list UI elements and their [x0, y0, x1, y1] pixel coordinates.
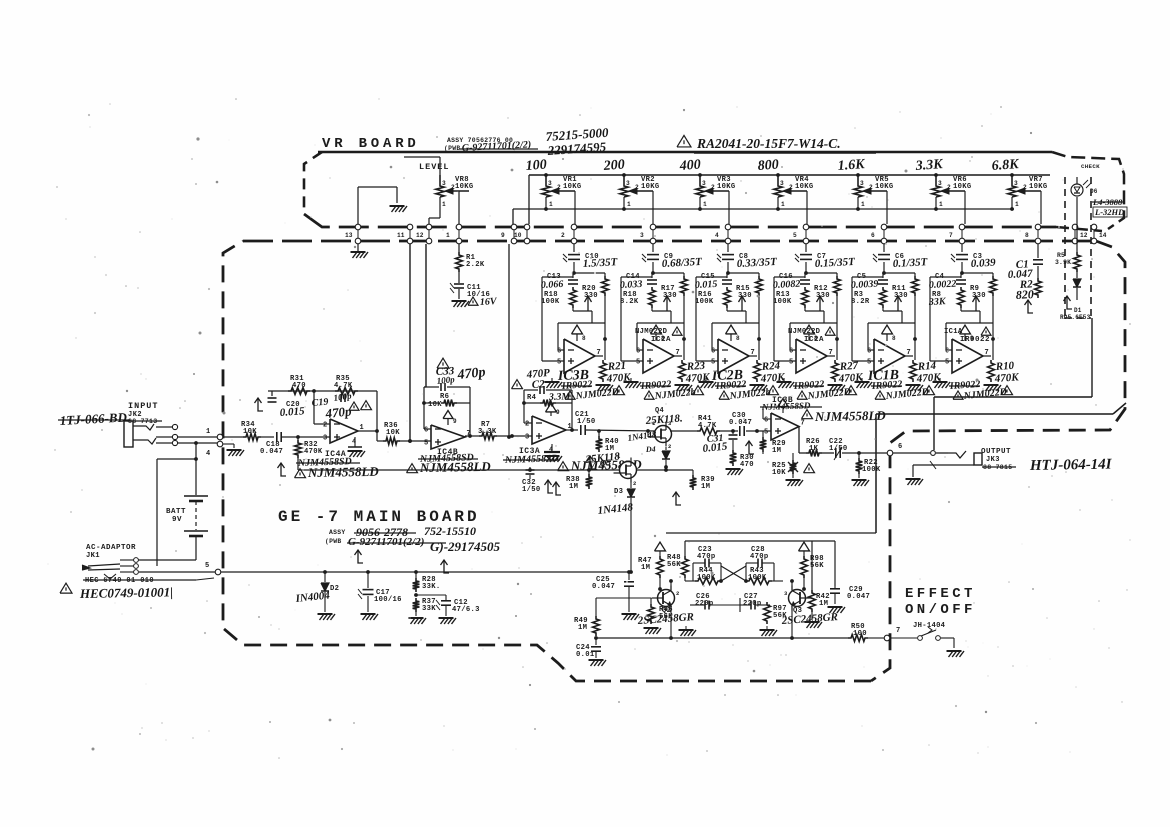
transistor Q2 — [652, 586, 680, 611]
svg-text:G)-29174505: G)-29174505 — [430, 539, 501, 554]
resistor R50 — [848, 623, 884, 641]
diode D1 — [1060, 272, 1091, 321]
input jack JK2 — [124, 421, 178, 447]
svg-text:10K: 10K — [772, 469, 786, 477]
svg-text:3: 3 — [548, 180, 552, 187]
resistor R11 — [892, 273, 918, 323]
ground below R21 — [596, 385, 614, 391]
svg-text:2: 2 — [525, 421, 529, 429]
svg-text:4.7K: 4.7K — [698, 422, 717, 430]
svg-text:3.3K: 3.3K — [478, 428, 497, 436]
wire cell 4 top tee — [806, 272, 837, 274]
ground R46 — [679, 626, 697, 636]
ground cell 4 aux — [777, 378, 795, 388]
ground R25 — [786, 474, 804, 486]
svg-text:6: 6 — [898, 443, 902, 451]
capacitor C4 — [929, 273, 966, 291]
transistor Q3 — [784, 586, 812, 611]
capacitor C32 — [522, 467, 540, 494]
capacitor C30 — [729, 412, 752, 436]
trimmer arrow cell 6 — [973, 296, 980, 311]
svg-text:JK1: JK1 — [86, 552, 100, 560]
CHECK label — [1081, 163, 1100, 170]
resistor R20 — [582, 273, 608, 323]
ground below C11 — [452, 289, 470, 307]
VR board outline — [304, 152, 1124, 231]
resistor R13 — [773, 287, 808, 311]
label IC3A — [503, 447, 642, 473]
svg-text:0.0039: 0.0039 — [851, 279, 879, 291]
svg-text:2.2K: 2.2K — [466, 261, 485, 269]
svg-text:1: 1 — [549, 201, 553, 208]
svg-text:2: 2 — [1023, 184, 1027, 191]
svg-text:5: 5 — [557, 359, 561, 367]
wire IC3A out — [566, 429, 578, 431]
ground R97 — [760, 626, 778, 636]
svg-text:5: 5 — [793, 232, 797, 239]
wire cell 3 left — [696, 277, 727, 361]
LEVEL label — [419, 162, 450, 172]
svg-text:G-92711701(2/2): G-92711701(2/2) — [348, 536, 424, 548]
node 1 — [206, 428, 223, 440]
resistor R18 — [620, 287, 655, 311]
svg-text:8: 8 — [736, 335, 740, 342]
svg-text:2: 2 — [633, 480, 636, 487]
diode D2 — [294, 572, 339, 612]
svg-text:800: 800 — [757, 158, 779, 174]
capacitor C20 — [268, 391, 306, 419]
wire Q2 collector — [658, 579, 673, 591]
svg-text:(PWB: (PWB — [325, 538, 342, 545]
label L4-3888 — [1092, 197, 1127, 217]
wire R36-IC4B — [399, 439, 431, 443]
power arrow op-amp 5 — [882, 325, 897, 342]
svg-text:7: 7 — [467, 430, 471, 438]
diode D4 — [627, 429, 670, 467]
svg-text:IC2A: IC2A — [651, 336, 671, 344]
trimmer arrow cell 1 — [585, 296, 592, 311]
op-amp IC2A — [789, 339, 833, 373]
capacitor C15 — [695, 273, 732, 291]
wire R34-C18 — [261, 436, 274, 438]
svg-text:8.2R: 8.2R — [851, 298, 870, 306]
svg-text:3.9K: 3.9K — [1055, 259, 1071, 266]
svg-text:47/6.3: 47/6.3 — [452, 606, 480, 614]
wire bus drop D — [507, 244, 511, 439]
resistor R22 — [856, 453, 881, 474]
capacitor C16 — [773, 273, 810, 291]
label pin4 IC3A — [544, 444, 562, 462]
label below op-amp 1 — [557, 368, 620, 402]
node 200 label — [602, 158, 625, 174]
capacitor C17 — [358, 572, 402, 612]
svg-text:RD5.6E53: RD5.6E53 — [1060, 314, 1091, 321]
capacitor C18 — [260, 432, 283, 456]
ground JH-1404 — [947, 651, 965, 657]
resistor R28 — [413, 572, 441, 592]
svg-text:12: 12 — [1080, 232, 1088, 239]
resistor R30 — [730, 450, 754, 469]
svg-text:6: 6 — [636, 348, 640, 356]
svg-text:6: 6 — [557, 348, 561, 356]
power arrow op-amp 4 — [804, 325, 819, 342]
capacitor C24 — [576, 638, 601, 659]
warning mark cell 2 — [693, 386, 704, 395]
power arrow IC3A — [546, 403, 561, 416]
power arrow C20 — [255, 398, 264, 411]
label IC4A — [295, 450, 380, 480]
svg-text:R4: R4 — [527, 394, 537, 402]
power arrow C32 — [545, 480, 554, 493]
potentiometer VR3 — [696, 173, 736, 224]
wire IC3A feedback box — [522, 390, 574, 432]
EFFECT ON/OFF title — [905, 586, 976, 618]
resistor R32 — [295, 437, 323, 458]
svg-text:4.7K: 4.7K — [334, 382, 353, 390]
wire Q3 collector — [790, 579, 806, 591]
label below op-amp 3 — [711, 368, 772, 402]
node 1.6K label — [837, 157, 866, 174]
warning mark cell 3 — [768, 386, 779, 395]
wire Q2 emitter — [669, 606, 673, 640]
resistor R41 — [670, 415, 720, 434]
svg-text:10KG: 10KG — [717, 183, 735, 191]
potentiometer VR5 — [854, 173, 894, 224]
svg-text:752-15510: 752-15510 — [424, 524, 476, 538]
wire cell 5 left — [852, 277, 883, 361]
svg-text:220p: 220p — [695, 600, 713, 608]
svg-text:2: 2 — [789, 184, 793, 191]
svg-text:470: 470 — [740, 461, 754, 469]
power arrow R39 — [673, 492, 682, 505]
svg-text:820: 820 — [1015, 287, 1034, 302]
svg-text:0.1/35T: 0.1/35T — [893, 256, 929, 270]
svg-text:HEC0749-01001|: HEC0749-01001| — [79, 584, 173, 601]
wire C22-out — [842, 451, 887, 455]
label AC-ADAPTOR — [86, 544, 136, 560]
power arrow op-amp 3 — [726, 325, 741, 342]
svg-text:OUTPUT: OUTPUT — [981, 448, 1011, 456]
svg-text:0.039: 0.039 — [971, 257, 997, 270]
wire frequency rail — [529, 175, 1050, 224]
node 7 — [884, 627, 900, 641]
revision note RA2041 — [677, 135, 876, 153]
svg-text:100K: 100K — [862, 466, 881, 474]
capacitor C26 — [690, 593, 740, 610]
svg-text:VR BOARD: VR BOARD — [322, 136, 420, 152]
main board ASSY text — [325, 524, 501, 554]
svg-text:6: 6 — [871, 232, 875, 239]
wire cell 2 feedback — [637, 323, 684, 350]
svg-text:ASSY: ASSY — [329, 529, 346, 536]
svg-text:9: 9 — [501, 232, 505, 239]
output jack JK3 — [913, 451, 982, 477]
node 6 output — [887, 443, 902, 456]
svg-text:L-32HD: L-32HD — [1094, 207, 1124, 217]
svg-text:ON/OFF: ON/OFF — [905, 602, 976, 618]
svg-text:1: 1 — [627, 201, 631, 208]
svg-text:100/16: 100/16 — [374, 596, 402, 604]
power arrow R40 — [587, 456, 596, 469]
svg-text:JK3: JK3 — [986, 456, 1000, 464]
resistor R23 — [679, 360, 711, 385]
op-amp IC3B — [557, 339, 601, 373]
wire Q5-R39 — [636, 468, 693, 472]
label 1TJ-066-BD — [58, 409, 130, 428]
svg-text:470p: 470p — [750, 553, 768, 561]
resistor R31 — [288, 375, 310, 394]
svg-text:3: 3 — [626, 180, 630, 187]
svg-text:100K: 100K — [773, 298, 792, 306]
resistor R44 — [685, 567, 721, 584]
wire Q4 gate — [647, 431, 649, 437]
svg-text:8: 8 — [582, 335, 586, 342]
wire cell 6 feedback — [946, 323, 993, 350]
svg-text:NJM022D: NJM022D — [788, 328, 821, 336]
svg-text:0.047: 0.047 — [592, 583, 615, 591]
svg-text:100p: 100p — [436, 374, 455, 386]
resistor R34 — [241, 421, 261, 440]
svg-text:4: 4 — [715, 232, 719, 239]
capacitor C33 — [436, 358, 487, 391]
svg-text:100: 100 — [525, 158, 547, 174]
svg-text:400: 400 — [678, 158, 701, 174]
resistor R40 — [596, 431, 619, 453]
wire check drop — [1076, 197, 1078, 252]
svg-text:0.015: 0.015 — [695, 279, 718, 291]
label above op-amp 6 — [944, 327, 991, 344]
wire R41-C30 — [720, 429, 738, 433]
power arrow IC3B — [778, 399, 788, 414]
ground below R14 — [906, 385, 924, 391]
capacitor C8 — [717, 244, 778, 275]
svg-text:8.2K: 8.2K — [620, 298, 639, 306]
wire main row — [586, 429, 656, 433]
resistor R3 — [851, 287, 886, 311]
svg-text:6: 6 — [789, 348, 793, 356]
wire cell 1 feedback — [558, 323, 605, 350]
potentiometer VR8 — [404, 157, 473, 224]
svg-text:5: 5 — [789, 359, 793, 367]
svg-text:0.047: 0.047 — [729, 419, 752, 427]
svg-text:0.01: 0.01 — [576, 651, 595, 659]
ground C12 — [439, 618, 457, 624]
svg-text:CHECK: CHECK — [1081, 163, 1100, 170]
ground output — [906, 479, 924, 485]
svg-text:D2: D2 — [330, 585, 339, 593]
svg-text:2: 2 — [323, 422, 327, 430]
resistor R38 — [566, 470, 592, 491]
svg-text:0.0082: 0.0082 — [773, 279, 801, 291]
svg-text:3: 3 — [1014, 180, 1018, 187]
wire cell 2 wiper — [652, 311, 671, 323]
resistor R98 — [801, 555, 825, 589]
svg-text:10KG: 10KG — [953, 183, 971, 191]
diode D3 — [597, 479, 635, 574]
svg-text:1M: 1M — [819, 600, 828, 608]
svg-text:1M: 1M — [569, 483, 578, 491]
wire cell 3 wiper — [727, 311, 746, 323]
wire IC3B out — [799, 426, 806, 453]
power arrow R2 — [1025, 300, 1034, 313]
wire cell 1 output — [595, 323, 607, 360]
capacitor C2 — [512, 367, 551, 394]
svg-text:2: 2 — [561, 232, 565, 239]
resistor R27 — [832, 360, 864, 385]
resistor R35 — [334, 375, 358, 394]
svg-text:3: 3 — [525, 434, 529, 442]
node 5 — [205, 562, 221, 575]
svg-text:2: 2 — [947, 184, 951, 191]
label below op-amp 6 — [948, 379, 1007, 402]
ground cell 2 aux — [624, 378, 642, 388]
ground R30 — [726, 469, 744, 475]
op-amp IC1A — [945, 339, 989, 373]
trimmer arrow cell 4 — [817, 296, 824, 311]
wire cell 2 left — [621, 277, 652, 361]
svg-text:3.3K: 3.3K — [914, 157, 944, 174]
svg-text:1: 1 — [206, 428, 210, 436]
ground C29 — [828, 607, 846, 613]
GE-7 MAIN BOARD title — [278, 508, 480, 526]
power arrow ff right — [799, 542, 810, 556]
svg-text:6: 6 — [424, 427, 428, 435]
power arrow C31 — [746, 441, 755, 454]
svg-text:0.0022: 0.0022 — [929, 279, 957, 291]
svg-text:0.68/35T: 0.68/35T — [662, 256, 704, 270]
label Q3 — [780, 607, 838, 627]
svg-text:470p: 470p — [324, 403, 353, 421]
svg-text:2: 2 — [711, 184, 715, 191]
ground C17 — [361, 614, 379, 620]
resistor R9 — [970, 273, 996, 323]
label pin4 IC4A — [348, 437, 366, 457]
svg-text:JH-1404: JH-1404 — [913, 622, 946, 630]
wire IC3B fb — [763, 407, 771, 419]
label INPUT — [127, 401, 162, 425]
svg-text:4: 4 — [206, 450, 210, 458]
svg-text:1/50: 1/50 — [829, 445, 847, 453]
svg-text:10: 10 — [514, 232, 522, 239]
wire under row — [298, 468, 620, 472]
check section dashed box — [1065, 177, 1091, 318]
label OUTPUT — [981, 448, 1113, 474]
node 3.3K label — [914, 157, 944, 174]
svg-text:AC-ADAPTOR: AC-ADAPTOR — [86, 544, 136, 552]
svg-text:470: 470 — [292, 382, 306, 390]
capacitor C13 — [541, 273, 578, 291]
svg-text:13: 13 — [345, 232, 353, 239]
wire cell 5 feedback — [868, 323, 915, 350]
node 6.8K label — [991, 157, 1020, 174]
svg-text:NJM4558LD: NJM4558LD — [307, 464, 380, 480]
warning mark cell 4 — [846, 386, 857, 395]
ground below R27 — [828, 385, 846, 391]
potentiometer VR4 — [774, 173, 814, 224]
ground cell 1 aux — [545, 378, 563, 388]
power arrow R32 — [278, 463, 287, 476]
svg-text:NJM4558SD: NJM4558SD — [761, 400, 811, 412]
ground below pad 13 — [351, 244, 369, 258]
ground input — [223, 444, 244, 456]
resistor R24 — [754, 360, 786, 385]
svg-text:0.047: 0.047 — [847, 593, 870, 601]
VR board ASSY text — [444, 125, 609, 158]
resistor R36 — [377, 422, 400, 444]
wire input sleeve — [178, 441, 220, 445]
ground R22 — [852, 474, 870, 486]
svg-text:200: 200 — [602, 158, 625, 174]
svg-text:10K: 10K — [428, 401, 442, 409]
wire bus drop A — [408, 244, 412, 443]
capacitor C31 — [702, 431, 737, 455]
wire IC4B out — [465, 435, 479, 437]
svg-text:1: 1 — [1015, 201, 1019, 208]
svg-text:56K: 56K — [810, 562, 824, 570]
op-amp IC2B — [711, 339, 755, 373]
capacitor C7 — [795, 244, 856, 275]
op-amp IC3B — [764, 413, 805, 440]
node 400 label — [678, 158, 701, 174]
power arrow R28 — [441, 560, 450, 573]
svg-text:3.3M: 3.3M — [548, 391, 572, 403]
warning mark cell 1 — [614, 386, 625, 395]
resistor R46 — [644, 598, 674, 634]
svg-text:HEC-0749-01-010: HEC-0749-01-010 — [85, 577, 154, 585]
node 100 label — [525, 158, 547, 174]
resistor R49 — [574, 598, 629, 636]
svg-text:EFFECT: EFFECT — [905, 586, 976, 602]
wire cell 4 wiper — [805, 311, 824, 323]
svg-text:1/50: 1/50 — [577, 418, 595, 426]
transistor Q4 — [644, 407, 683, 450]
resistor R12 — [814, 273, 840, 323]
svg-text:BATT: BATT — [166, 508, 186, 516]
svg-text:D1: D1 — [1074, 307, 1082, 314]
wire R7-IC3A — [497, 434, 532, 438]
svg-text:LEVEL: LEVEL — [419, 162, 450, 172]
wire cell 3 feedback — [712, 323, 759, 350]
wire cell 6 top tee — [962, 272, 993, 274]
svg-text:7: 7 — [801, 420, 805, 428]
svg-text:100K: 100K — [695, 298, 714, 306]
svg-text:0.066: 0.066 — [541, 279, 564, 291]
edge connector pin numbers — [345, 232, 1107, 239]
capacitor C19 — [311, 391, 352, 422]
wire cell 5 output — [905, 323, 917, 360]
resistor R17 — [661, 273, 687, 323]
wire IC4A feedback — [268, 389, 379, 441]
svg-text:100: 100 — [853, 630, 867, 638]
potentiometer VR7 — [1008, 173, 1048, 224]
svg-text:3: 3 — [702, 180, 706, 187]
resistor R14 — [910, 360, 942, 385]
wire cell 3 output — [749, 323, 761, 360]
power arrow op-amp 2 — [651, 325, 666, 342]
ground cell 3 aux — [699, 378, 717, 388]
svg-text:R5: R5 — [1057, 252, 1065, 259]
svg-text:3: 3 — [860, 180, 864, 187]
resistor R8 — [928, 287, 965, 311]
resistor R26 — [806, 438, 822, 456]
svg-text:33K: 33K — [422, 605, 436, 613]
wire Q3 base — [805, 597, 812, 599]
resistor R7 — [478, 421, 497, 439]
svg-text:10KG: 10KG — [795, 183, 813, 191]
led D6 — [1071, 177, 1098, 196]
svg-text:D4: D4 — [645, 444, 656, 454]
svg-text:8: 8 — [892, 335, 896, 342]
